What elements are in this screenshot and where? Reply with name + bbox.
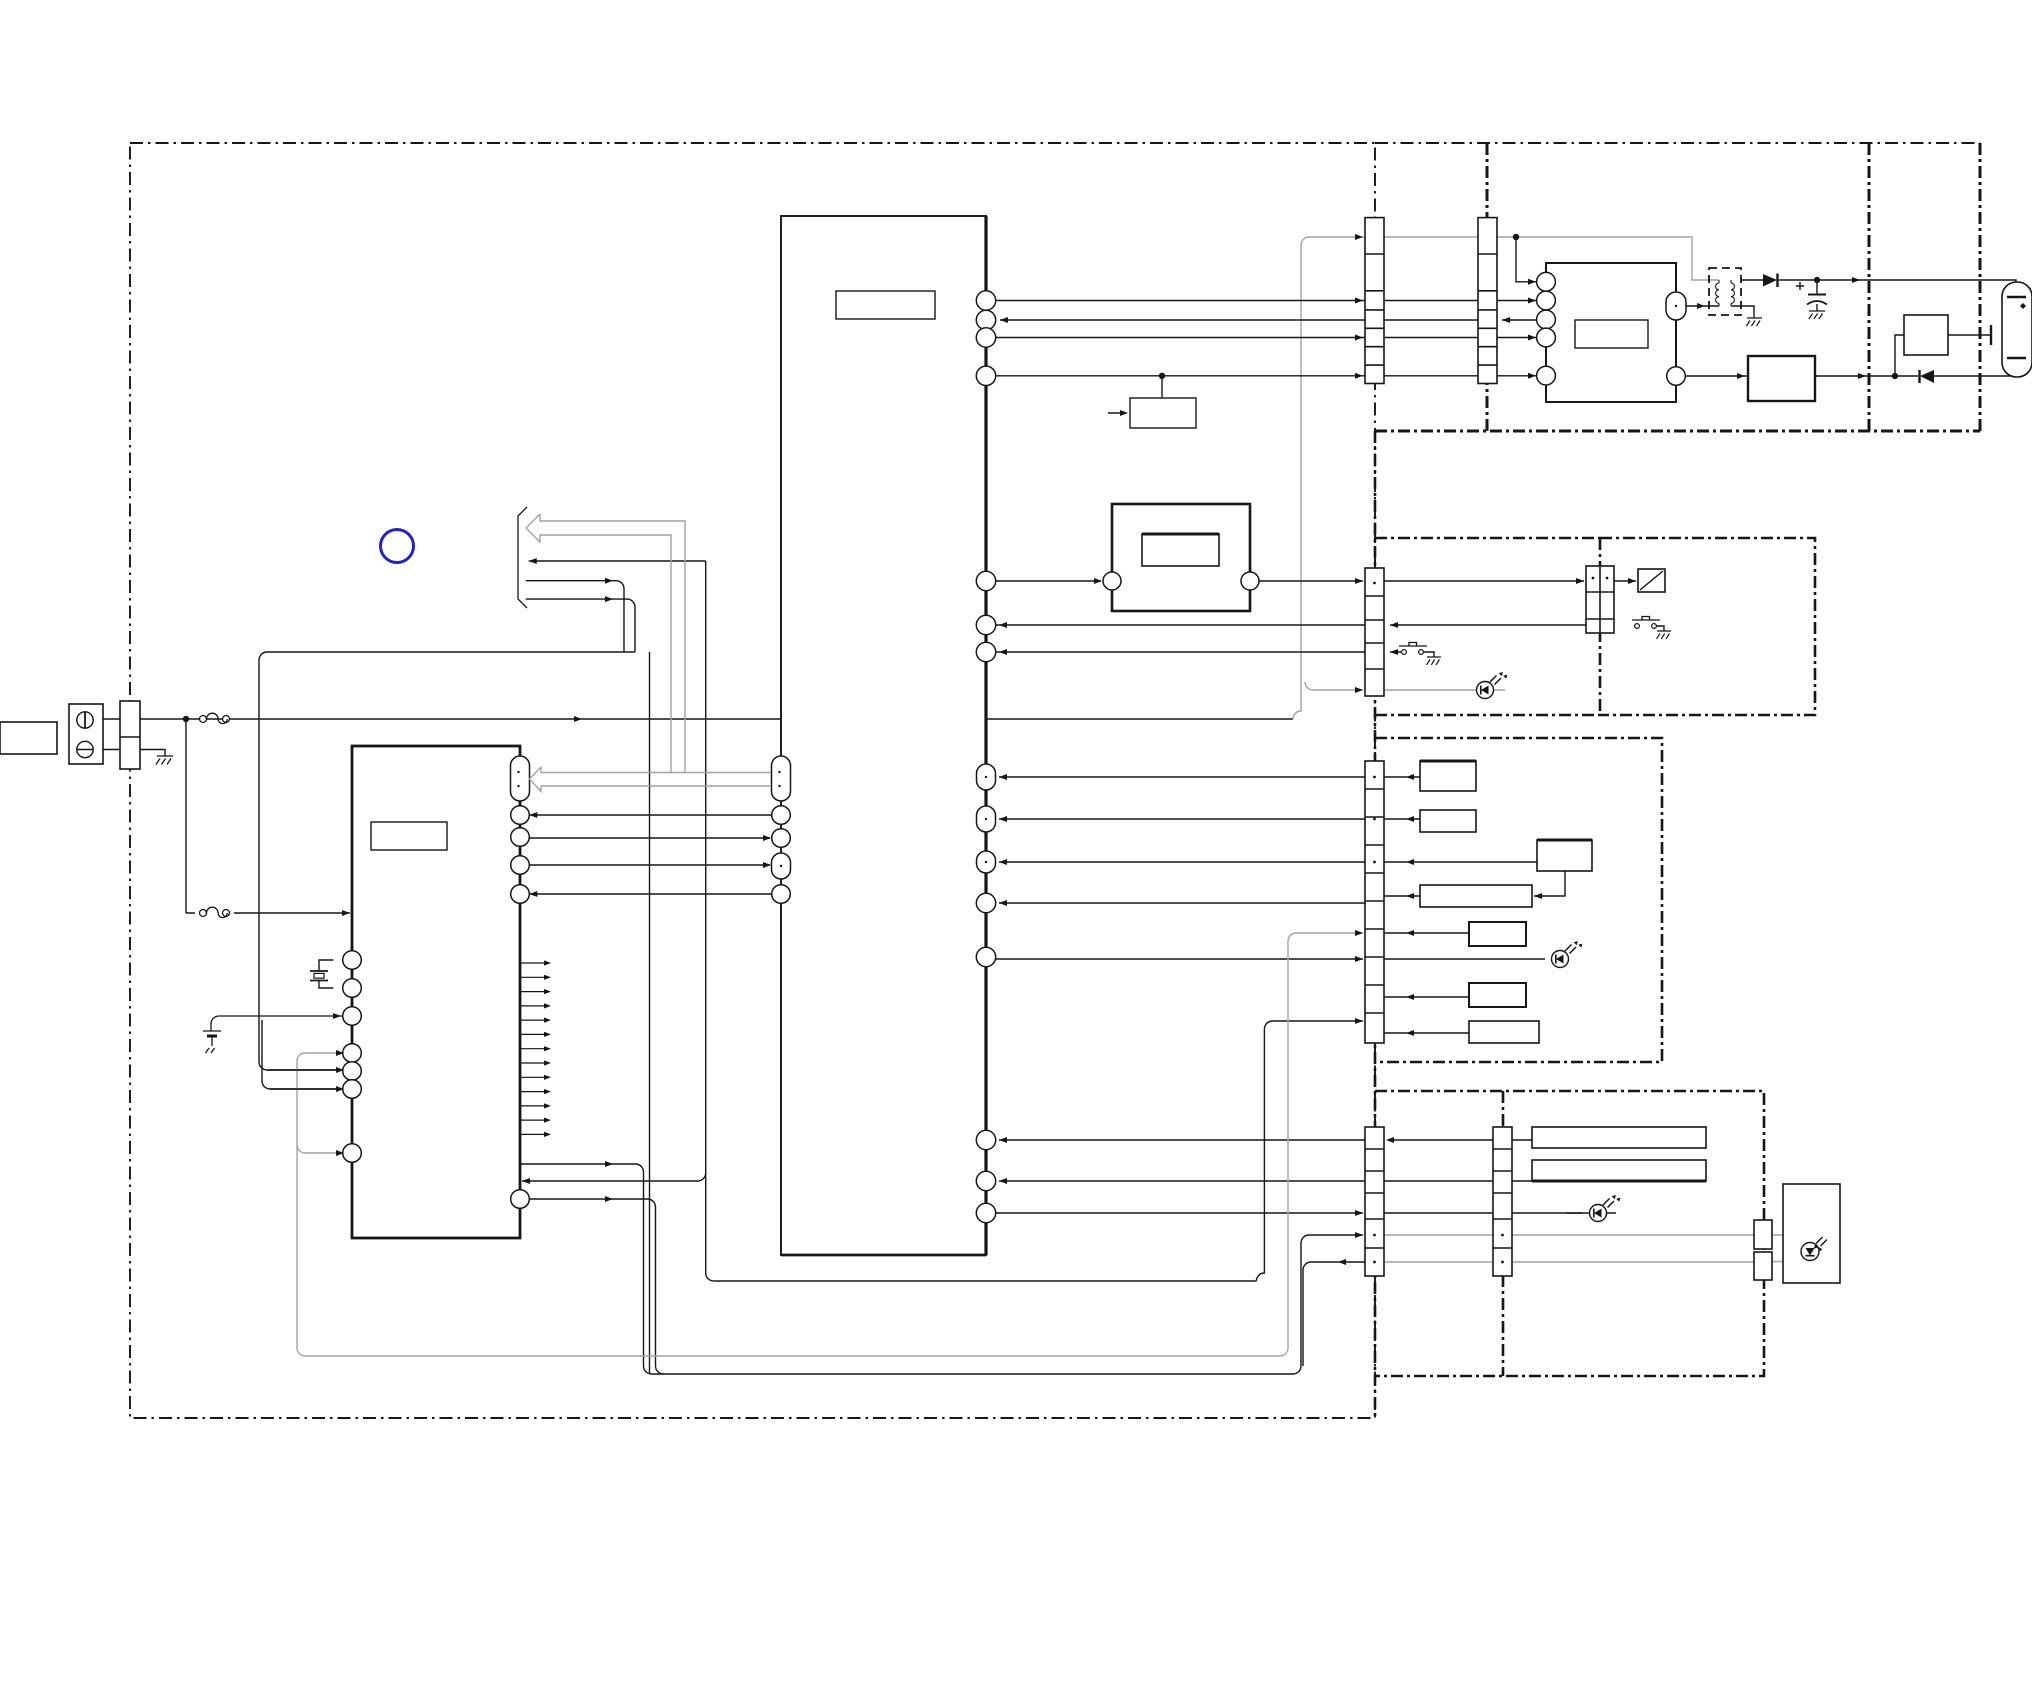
hollow arrow up-left [526,514,685,772]
wire gray conn7 loop bottom [1772,1260,1810,1262]
wire mains row 237 to connectors [1309,236,1516,238]
main board right edge heavy lower part [1374,431,1377,1418]
wire gray row to pin6 [270,1088,341,1090]
capacitor C1 [1808,294,1826,296]
wire corridor vertical 649.5 [649,652,651,1374]
chassis ground transformer [1746,318,1762,326]
chassis ground neutral [156,756,173,765]
wire PSU bottom to protector [1686,375,1748,377]
connector tuner 2col [1586,566,1614,633]
key box 4 long [1420,885,1532,907]
key box 1 [1420,761,1476,791]
switch SW3 [1635,624,1640,629]
fuse box battery [1904,315,1948,355]
key box 3 [1537,840,1592,871]
LED IR sensor [1801,1237,1827,1261]
wire row 326 [1000,319,1536,321]
IR sensor box [1783,1184,1840,1283]
connector CN4 [1365,761,1384,1043]
wire row 381 [996,375,1536,377]
wire micro row 1164 drop [520,1164,652,1374]
arrowheads right-pointing [574,716,582,722]
wire arc into row 1181 west [522,1173,706,1181]
node junction AC [183,716,189,722]
ground symbol micro [203,1016,342,1053]
terminal circle neutral [77,741,93,757]
wire row 894 [529,893,772,895]
wire micro row 1199 drop [529,1199,663,1374]
wire under-IC row 1281 [714,1280,1257,1282]
wire bundle vertical 705.7 [705,561,707,1273]
battery box left edge [1868,143,1871,431]
transformer T1 dashed box [1709,268,1741,315]
terminal circle live [77,712,93,728]
wire row 815 [529,814,771,816]
wire row 625 [996,624,1586,626]
protector box [1748,356,1815,401]
wire row 652 [259,652,635,1016]
pins PSU left [1537,272,1556,291]
wire row 838 [529,837,770,839]
transformer coils [1716,280,1735,306]
bottom right box [1375,1091,1764,1376]
wire drop from junction to PSU pin1 [1516,237,1536,282]
wire row 652 right [996,651,1401,653]
wire row 1181 mid [999,1180,1532,1182]
pin PSU right oval [1666,292,1686,320]
wire gray row to pin5 [267,1069,341,1071]
wire vertical 262 to pin6 [262,1020,341,1089]
wire row 903 [999,902,1365,904]
diode D2 [1920,370,1934,383]
wire arc into row 1281 east [706,1273,714,1281]
LED tuner [1477,672,1508,699]
node junction 237 [1513,234,1519,240]
battery box right edge [1979,143,1982,431]
microcontroller IC-L [352,746,520,1238]
wire PSU pin to transformer [1686,305,1719,307]
display bar 1 [1532,1127,1706,1148]
pin PSU right bottom [1667,367,1686,386]
wire row 1140 [999,1139,1532,1141]
wire gray bottom row 1356 [305,933,1363,1356]
clock module box [1112,504,1250,611]
pins IC-C left [772,806,791,825]
node junction cap [1814,277,1820,283]
wire clock row 583 [996,580,1636,582]
wire row 862 [999,861,1365,863]
wire row 1213 [996,1212,1582,1214]
wire second riser to row 1262 [1303,1262,1365,1366]
wire bundle row 561 [529,560,706,562]
display bar 2 [1532,1160,1706,1181]
wire AC live riser with corners [1293,237,1309,719]
wire AC live row from fuse to riser [93,718,1293,720]
main board dash-dot border [130,143,1375,1418]
wire protector to diode2 to battery [1815,363,2016,376]
wire gray 237 row to transformer [1516,237,1719,280]
clock label box [1142,534,1219,566]
tuner box B [1600,538,1815,715]
connector CN3 [1365,568,1384,696]
wire bottom return row 1374 [652,1235,1364,1374]
key box 3 link [1534,871,1565,896]
diode D1 [1763,274,1777,287]
key box 7 [1469,1021,1539,1043]
wire gray LED row 690 [1305,682,1505,690]
key box 6 [1469,983,1526,1007]
wire diode to battery top [1779,280,2016,292]
wire row 1213 stub [1566,1212,1616,1214]
blue revision circle [381,530,414,563]
tuner box A [1375,538,1600,715]
wire gray rows 1235 1262 conn5 to conn7 [1384,1235,1754,1262]
pins IC-L left [343,951,362,970]
wire fuse2 drop and row to microcontroller [186,719,350,913]
DSP IC-C [781,216,986,1255]
bottom right box divider [1502,1091,1505,1376]
wire riser to fuse box [1895,335,1904,376]
IC-L label box [371,822,447,850]
fan arrows bus [520,960,551,1137]
power board inner left edge [1486,143,1489,431]
connector CN0 [120,701,140,769]
connector CN1 [1365,218,1384,384]
node junction fuse box [1892,373,1898,379]
key board box [1375,738,1662,1062]
AC terminal box [69,704,103,764]
connector CN5 [1365,1127,1384,1276]
wire fuse box to terminal [1948,334,1991,336]
wire row 777 [999,776,1365,778]
LED key [1552,941,1583,968]
wire vertical 259 lower to pin5 [259,1016,341,1070]
arrowheads left-pointing [529,558,537,564]
wire bundle row 599.1 with drop [526,599,635,652]
connector CN7 small [1754,1220,1772,1249]
wire gray row to pin4 [305,1052,341,1054]
node junction 381 [1159,373,1165,379]
wire gray branch to pin7 [297,1145,341,1153]
wire AC neutral row [93,750,165,757]
wire gray vertical 297 [297,1053,305,1356]
fuse F1 [200,713,230,723]
key rows east of CN4 [1384,777,1545,1033]
wire terminal bar [1990,325,1992,345]
AC plug blade box [0,722,57,754]
power board bottom edge [1375,430,1980,433]
wire cap to ground [1816,304,1818,311]
wire riser 1264 to conn4 [1256,1021,1363,1281]
wire row 865 [529,864,770,866]
battery symbol [2002,282,2032,377]
connector CN6 [1493,1127,1512,1276]
reset box [1130,398,1196,428]
pins clock module [1103,572,1121,590]
wire row 819 [999,818,1365,820]
wire bundle row 580.7 with drop [526,581,624,652]
power board top edge [1375,142,1980,144]
chassis ground capacitor [1809,311,1825,319]
pins IC-C right mid [976,571,995,590]
wire stub arrow into reset box [1108,412,1126,414]
LED bottom [1590,1195,1621,1222]
pins IC-C right bottom [976,1130,995,1149]
wire row 345 [996,337,1536,339]
wire stem to reset box [1161,376,1163,398]
pins IC-L right [511,806,530,825]
pins IC-C right top [976,291,995,310]
pin oval IC-L bus [511,756,530,801]
motor slash box [1638,569,1665,592]
pin oval IC-C left bus [772,756,791,801]
capacitor C1 plus [1796,282,1804,290]
wire cap stem [1816,280,1818,294]
wire row 306 IC to conn1 [996,300,1536,302]
hollow arrow shaft to IC-L [530,767,772,792]
switch SW2 [1402,650,1407,655]
wire gray conn7 loop top [1772,1235,1810,1244]
IC-C label box [836,291,935,319]
wire transformer secondary to diode [1741,279,1763,281]
key box 5 [1469,922,1526,946]
connector CN2 [1478,218,1497,384]
PSU IC box [1546,263,1676,402]
wire transformer ground hook [1731,306,1754,318]
bracket cable mark [518,507,527,608]
wire row 959 [996,958,1363,960]
crystal X1 [310,960,333,988]
key box 2 [1420,810,1476,832]
fuse F2 [200,907,230,917]
